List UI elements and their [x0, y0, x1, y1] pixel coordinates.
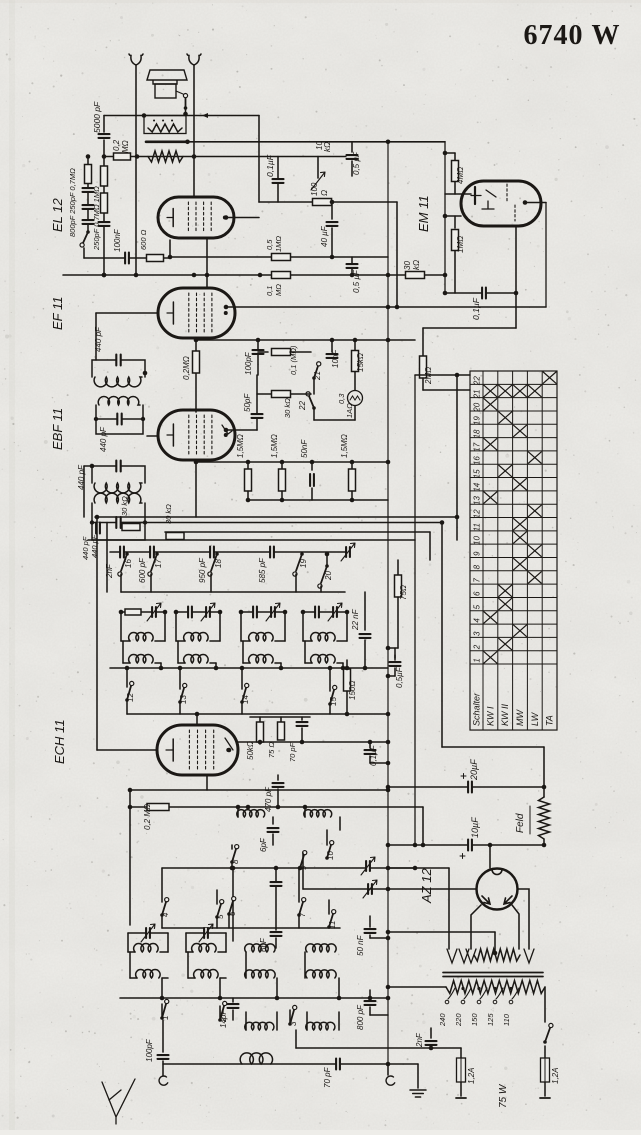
- EBF11 anode wire: [226, 429, 257, 431]
- svg-text:110: 110: [502, 1013, 511, 1026]
- wire: [219, 978, 221, 998]
- capacitor 100nF: [125, 253, 129, 264]
- tap circle: [461, 1000, 465, 1004]
- wire: [339, 817, 341, 830]
- junction: [455, 373, 460, 378]
- wire: [161, 868, 163, 902]
- junction: [283, 610, 288, 615]
- wire: [87, 157, 89, 233]
- dots above zigzag: [154, 120, 172, 122]
- junction: [102, 154, 107, 159]
- EM11 deflector: [471, 190, 496, 209]
- group left G3: [240, 612, 242, 641]
- wire: [515, 226, 517, 293]
- capacitor 100pF ant: [158, 1055, 169, 1059]
- wire: [126, 700, 128, 714]
- heater prong d: [524, 949, 534, 963]
- junction: [214, 666, 219, 671]
- primary tap 240: [448, 988, 455, 999]
- svg-text:13: 13: [473, 496, 482, 505]
- svg-text:14pF: 14pF: [219, 1009, 228, 1028]
- paper blotch filter: [0, 0, 1, 1]
- resistor 30k&#937;: [406, 272, 425, 279]
- IF can T3a: [92, 461, 145, 493]
- wire: [178, 662, 185, 664]
- junction: [174, 610, 179, 615]
- switch 3: [290, 1010, 294, 1024]
- svg-text:6: 6: [473, 591, 482, 596]
- junction: [142, 113, 147, 118]
- switch 21: [314, 366, 318, 378]
- svg-text:75Ω: 75Ω: [399, 585, 408, 600]
- junction: [310, 460, 315, 465]
- group right G2: [219, 612, 221, 641]
- wire: [179, 668, 181, 689]
- hum coil zigzag: [148, 124, 182, 132]
- mains switch: [545, 1028, 550, 1042]
- group right G3: [284, 612, 286, 641]
- switch 12: [127, 686, 131, 700]
- wire: [155, 662, 161, 664]
- resistor 1M&#937; screen: [272, 254, 291, 261]
- EBF11 grid wire: [147, 435, 158, 437]
- junction: [192, 273, 197, 278]
- wire: [364, 592, 366, 630]
- capacitor 2nF mains: [426, 1041, 437, 1045]
- svg-text:2MΩ: 2MΩ: [424, 367, 433, 385]
- junction: [134, 273, 139, 278]
- ant coil b A1: [136, 970, 161, 978]
- wire: [162, 977, 168, 979]
- wire: [210, 640, 220, 642]
- edge shading: [9, 0, 15, 1130]
- resistor 75&#937;: [395, 575, 402, 597]
- resistor 75&#937; b: [278, 722, 285, 740]
- wire: [388, 1063, 418, 1065]
- wire: [311, 488, 313, 500]
- bus wire 4: [88, 539, 415, 541]
- wire: [250, 716, 310, 718]
- AZ12 top notch: [492, 870, 502, 875]
- capacitor 0,5uF lower: [347, 264, 358, 268]
- capacitor on x276: [271, 882, 282, 886]
- junction: [386, 305, 391, 310]
- wire: [354, 406, 356, 420]
- IF can T3b: [90, 493, 147, 540]
- junction: [386, 996, 391, 1001]
- svg-text:LW: LW: [530, 711, 540, 726]
- wire: [277, 775, 279, 780]
- junction EF11 anode: [224, 305, 229, 310]
- antenna wire: [163, 1063, 388, 1065]
- junction ECH11 anode: [227, 748, 232, 753]
- wire: [445, 152, 455, 154]
- switch 18: [211, 554, 217, 571]
- wire: [417, 1064, 419, 1088]
- svg-text:800pF 250pF 0,7MΩ: 800pF 250pF 0,7MΩ: [68, 168, 77, 237]
- wire: [489, 845, 491, 868]
- svg-text:1MΩ: 1MΩ: [274, 236, 283, 252]
- fuse F1: [457, 1058, 466, 1082]
- resistor 30k&#937; b: [166, 533, 184, 540]
- junction: [256, 338, 261, 343]
- wire: [354, 340, 356, 350]
- wire: [388, 986, 446, 988]
- capacitor 50pF: [252, 414, 263, 418]
- wire: [193, 65, 195, 197]
- osc coil b G3: [249, 655, 274, 663]
- wire: [311, 462, 313, 470]
- svg-text:19: 19: [473, 416, 482, 425]
- switch speaker: [185, 98, 187, 109]
- switch 5: [217, 904, 221, 917]
- wire: [226, 217, 259, 219]
- junction: [168, 255, 173, 260]
- svg-text:MW: MW: [515, 709, 525, 726]
- capacitor 20uF: [468, 782, 472, 793]
- wire y747: [442, 746, 544, 748]
- ant group top A2: [186, 932, 226, 934]
- svg-text:1MΩ: 1MΩ: [456, 236, 465, 253]
- resistor 30k&#937;: [272, 391, 291, 398]
- svg-text:50 nF: 50 nF: [356, 934, 365, 956]
- IF can T2b: [94, 396, 145, 434]
- frame2 A2: [225, 933, 227, 952]
- wire: [257, 340, 259, 375]
- capacitor 0,1uF osc: [365, 750, 376, 754]
- svg-text:21: 21: [473, 390, 482, 400]
- svg-text:EM 11: EM 11: [416, 195, 431, 232]
- junction: [443, 273, 448, 278]
- svg-text:150: 150: [470, 1013, 479, 1026]
- wire: [220, 977, 226, 979]
- tap junction: [509, 987, 512, 990]
- svg-text:1,2A: 1,2A: [551, 1068, 560, 1084]
- wire: [95, 313, 97, 360]
- junction: [345, 712, 350, 717]
- capacitor 250pF: [83, 188, 94, 192]
- capacitor 800pF: [365, 1001, 376, 1005]
- svg-text:10µF: 10µF: [470, 817, 480, 838]
- junction: [353, 338, 358, 343]
- primary tap 110: [512, 988, 519, 999]
- switch 4: [162, 902, 166, 915]
- tube ECH11: [157, 725, 238, 775]
- capacitor 50nF RF: [365, 929, 376, 933]
- svg-text:0,5 µF: 0,5 µF: [352, 269, 361, 293]
- svg-text:0,1µF: 0,1µF: [471, 297, 481, 320]
- capacitor 6pF: [268, 828, 279, 832]
- wire: [281, 491, 283, 500]
- B+ wire y787: [388, 786, 544, 788]
- left RF vertical: [129, 790, 131, 925]
- wire: [351, 257, 353, 275]
- wire: [232, 1010, 234, 1020]
- group right G1: [164, 612, 166, 641]
- wire: [337, 640, 347, 642]
- resistor 30k&#937; a: [122, 524, 140, 531]
- junction: [328, 666, 333, 671]
- resistor 1,5M&#937;: [349, 469, 356, 491]
- wire: [369, 916, 371, 927]
- resistor 1M&#937;: [452, 230, 459, 251]
- resistor 0,2M&#937;: [193, 351, 200, 373]
- frame2 A1: [167, 933, 169, 952]
- junction: [386, 646, 391, 651]
- wire: [188, 141, 446, 143]
- wire: [216, 890, 218, 904]
- wire: [232, 998, 234, 1002]
- wire: [329, 668, 331, 691]
- junction: [192, 154, 197, 159]
- wire: [206, 775, 208, 790]
- junction: [413, 843, 418, 848]
- svg-text:1,5MΩ: 1,5MΩ: [340, 434, 349, 458]
- osc coil a G4: [311, 633, 336, 641]
- wire y845: [388, 844, 544, 846]
- group left G4: [302, 612, 304, 641]
- group top wire G3: [241, 611, 285, 613]
- svg-text:50nF: 50nF: [300, 439, 309, 458]
- junction: [218, 996, 223, 1001]
- junction: [330, 338, 335, 343]
- wire: [314, 419, 355, 421]
- dial lamp filament: [350, 396, 360, 400]
- wire: [162, 1061, 164, 1076]
- svg-text:600 pF: 600 pF: [138, 557, 147, 583]
- junction: [230, 866, 235, 871]
- wire: [397, 560, 399, 575]
- table column labels: [472, 692, 555, 726]
- junction: [135, 154, 140, 159]
- RF coil b: [304, 810, 332, 817]
- capacitor 22nF: [360, 634, 371, 638]
- svg-text:4MΩ: 4MΩ: [456, 167, 465, 184]
- resistor 100&#937;: [313, 199, 332, 206]
- main rail y275: [63, 274, 445, 276]
- capacitor 40uF: [327, 222, 338, 226]
- svg-text:10nF: 10nF: [331, 349, 340, 368]
- bus wire 1: [95, 516, 458, 518]
- group top wire G2: [176, 611, 220, 613]
- junction heater CT: [493, 951, 498, 956]
- wire: [370, 762, 388, 764]
- svg-text:9: 9: [473, 551, 482, 556]
- resistor 0,7M&#937;: [101, 193, 108, 213]
- wire: [161, 978, 163, 998]
- ant coil b A4: [306, 970, 336, 978]
- svg-text:6740 W: 6740 W: [524, 20, 621, 51]
- switch 14: [242, 688, 246, 702]
- wire: [210, 574, 212, 592]
- wire: [460, 1082, 462, 1096]
- wire: [313, 408, 315, 420]
- resistor 150&#937;: [344, 669, 351, 691]
- ground jack: [386, 1076, 395, 1085]
- wire: [126, 668, 128, 687]
- tap junction: [493, 987, 496, 990]
- svg-text:7: 7: [473, 578, 482, 583]
- tap circle: [477, 1000, 481, 1004]
- svg-text:20µF: 20µF: [469, 759, 479, 781]
- primary tap 125: [496, 988, 503, 999]
- ant coil a A4: [306, 944, 336, 952]
- wire: [296, 1047, 461, 1049]
- tube EL12: [158, 197, 234, 238]
- svg-text:22: 22: [298, 401, 307, 411]
- junction: [231, 866, 236, 871]
- tube EBF11: [158, 410, 235, 460]
- osc coil b G4: [311, 655, 336, 663]
- wire: [388, 647, 398, 649]
- wire: [170, 256, 388, 258]
- wire: [313, 378, 315, 394]
- capacitor 0,1uF: [273, 179, 284, 183]
- wire: [304, 807, 306, 817]
- resistor 50k&#937;: [257, 722, 264, 742]
- wire: [226, 306, 546, 308]
- wire: [259, 717, 261, 722]
- capacitor 10nF: [327, 354, 338, 358]
- junction: [301, 610, 306, 615]
- fuse F2 inner: [544, 1058, 546, 1082]
- junction: [303, 805, 308, 810]
- svg-text:15kΩ: 15kΩ: [356, 353, 365, 372]
- junction: [330, 200, 335, 205]
- junction: [488, 843, 493, 848]
- trimmer G1: [152, 607, 156, 617]
- junction: [275, 996, 280, 1001]
- switch 17: [151, 554, 157, 571]
- RF wire c: [162, 867, 415, 869]
- primary tap 150: [480, 988, 487, 999]
- RF wire d: [162, 927, 340, 929]
- magnet bar: [146, 141, 188, 144]
- wire: [84, 465, 92, 467]
- switch table grid: [470, 371, 557, 730]
- wire: [544, 1046, 546, 1058]
- junction: [386, 460, 391, 465]
- AZ12 outer right lead: [518, 889, 530, 949]
- svg-text:250pF 0,7MΩ 1MΩ: 250pF 0,7MΩ 1MΩ: [92, 186, 101, 251]
- wire: [544, 987, 546, 1022]
- capacitor 0,5uF band: [390, 662, 401, 666]
- wire: [331, 340, 333, 352]
- junction: [125, 666, 130, 671]
- bus wire 3: [165, 531, 430, 533]
- AZ12 right lead: [512, 905, 519, 949]
- wire: [103, 140, 105, 275]
- wire: [103, 116, 105, 133]
- resistor 2M&#937;: [420, 356, 427, 378]
- padder resistor G1: [125, 609, 141, 615]
- junction: [443, 151, 448, 156]
- junction: [341, 666, 346, 671]
- osc coil a G3: [249, 633, 274, 641]
- junction: [542, 843, 547, 848]
- svg-text:0,2 MΩ: 0,2 MΩ: [143, 804, 152, 830]
- vertical x457: [456, 375, 458, 540]
- junction: [386, 866, 391, 871]
- svg-text:16: 16: [124, 559, 133, 568]
- svg-text:EBF 11: EBF 11: [50, 408, 65, 450]
- wire: [422, 378, 424, 390]
- wire: [346, 691, 348, 714]
- svg-text:1,5MΩ: 1,5MΩ: [270, 434, 279, 458]
- ant coil a A1: [134, 944, 158, 952]
- junction: [440, 520, 445, 525]
- transformer primary winding: [446, 981, 545, 994]
- junction: [386, 985, 391, 990]
- junction: [246, 460, 251, 465]
- capacitor 0,1uF EM11: [482, 288, 486, 299]
- switch 11: [329, 914, 333, 927]
- plus mark 20uF: [461, 774, 466, 779]
- junction: [386, 273, 391, 278]
- capacitor 0,5uF top: [347, 155, 358, 159]
- frame A2: [185, 933, 187, 952]
- wire: [96, 517, 98, 750]
- wire: [351, 161, 353, 176]
- wire: [188, 977, 195, 979]
- resistor zigzag: [148, 151, 183, 162]
- bus wire 5: [121, 591, 345, 593]
- svg-text:15: 15: [473, 469, 482, 478]
- paper texture: [0, 0, 1, 1]
- osc coil a G2: [184, 633, 208, 641]
- capacitor 600pF: [150, 547, 154, 558]
- capacitor 950pF: [210, 547, 214, 558]
- junction: [160, 996, 165, 1001]
- wire: [84, 257, 170, 259]
- tap circle: [493, 1000, 497, 1004]
- wire: [494, 932, 496, 953]
- svg-text:1AΩ: 1AΩ: [345, 403, 354, 418]
- heater CT wire: [388, 931, 495, 933]
- svg-text:1,2A: 1,2A: [467, 1068, 476, 1084]
- wire: [454, 251, 456, 293]
- capacitor 5000pF: [99, 134, 110, 138]
- junction EBF11 anode: [224, 428, 229, 433]
- EM11 dashes: [507, 184, 515, 221]
- junction: [386, 712, 391, 717]
- wire: [256, 375, 258, 430]
- svg-text:0,2: 0,2: [112, 139, 121, 151]
- wire: [369, 742, 371, 748]
- svg-text:19: 19: [299, 559, 308, 568]
- wire y889: [303, 888, 477, 890]
- junction: [240, 666, 245, 671]
- wire: [423, 327, 516, 329]
- ground: [410, 1090, 426, 1097]
- wire: [305, 662, 312, 664]
- svg-text:KW II: KW II: [500, 704, 510, 726]
- RF wire b: [130, 806, 423, 808]
- svg-text:30 kΩ: 30 kΩ: [283, 398, 292, 418]
- resistor 4M&#937;: [452, 161, 459, 182]
- wire: [445, 292, 516, 294]
- junction: [194, 460, 199, 465]
- junction: [159, 666, 164, 671]
- transformer heater winding: [474, 949, 520, 961]
- junction: [102, 273, 107, 278]
- wire: [281, 462, 283, 468]
- svg-text:70 pF: 70 pF: [323, 1066, 332, 1088]
- padder cap G4: [315, 607, 319, 618]
- svg-text:220: 220: [454, 1013, 463, 1027]
- wire: [295, 574, 297, 592]
- resistor 1,5M&#937;: [245, 469, 252, 491]
